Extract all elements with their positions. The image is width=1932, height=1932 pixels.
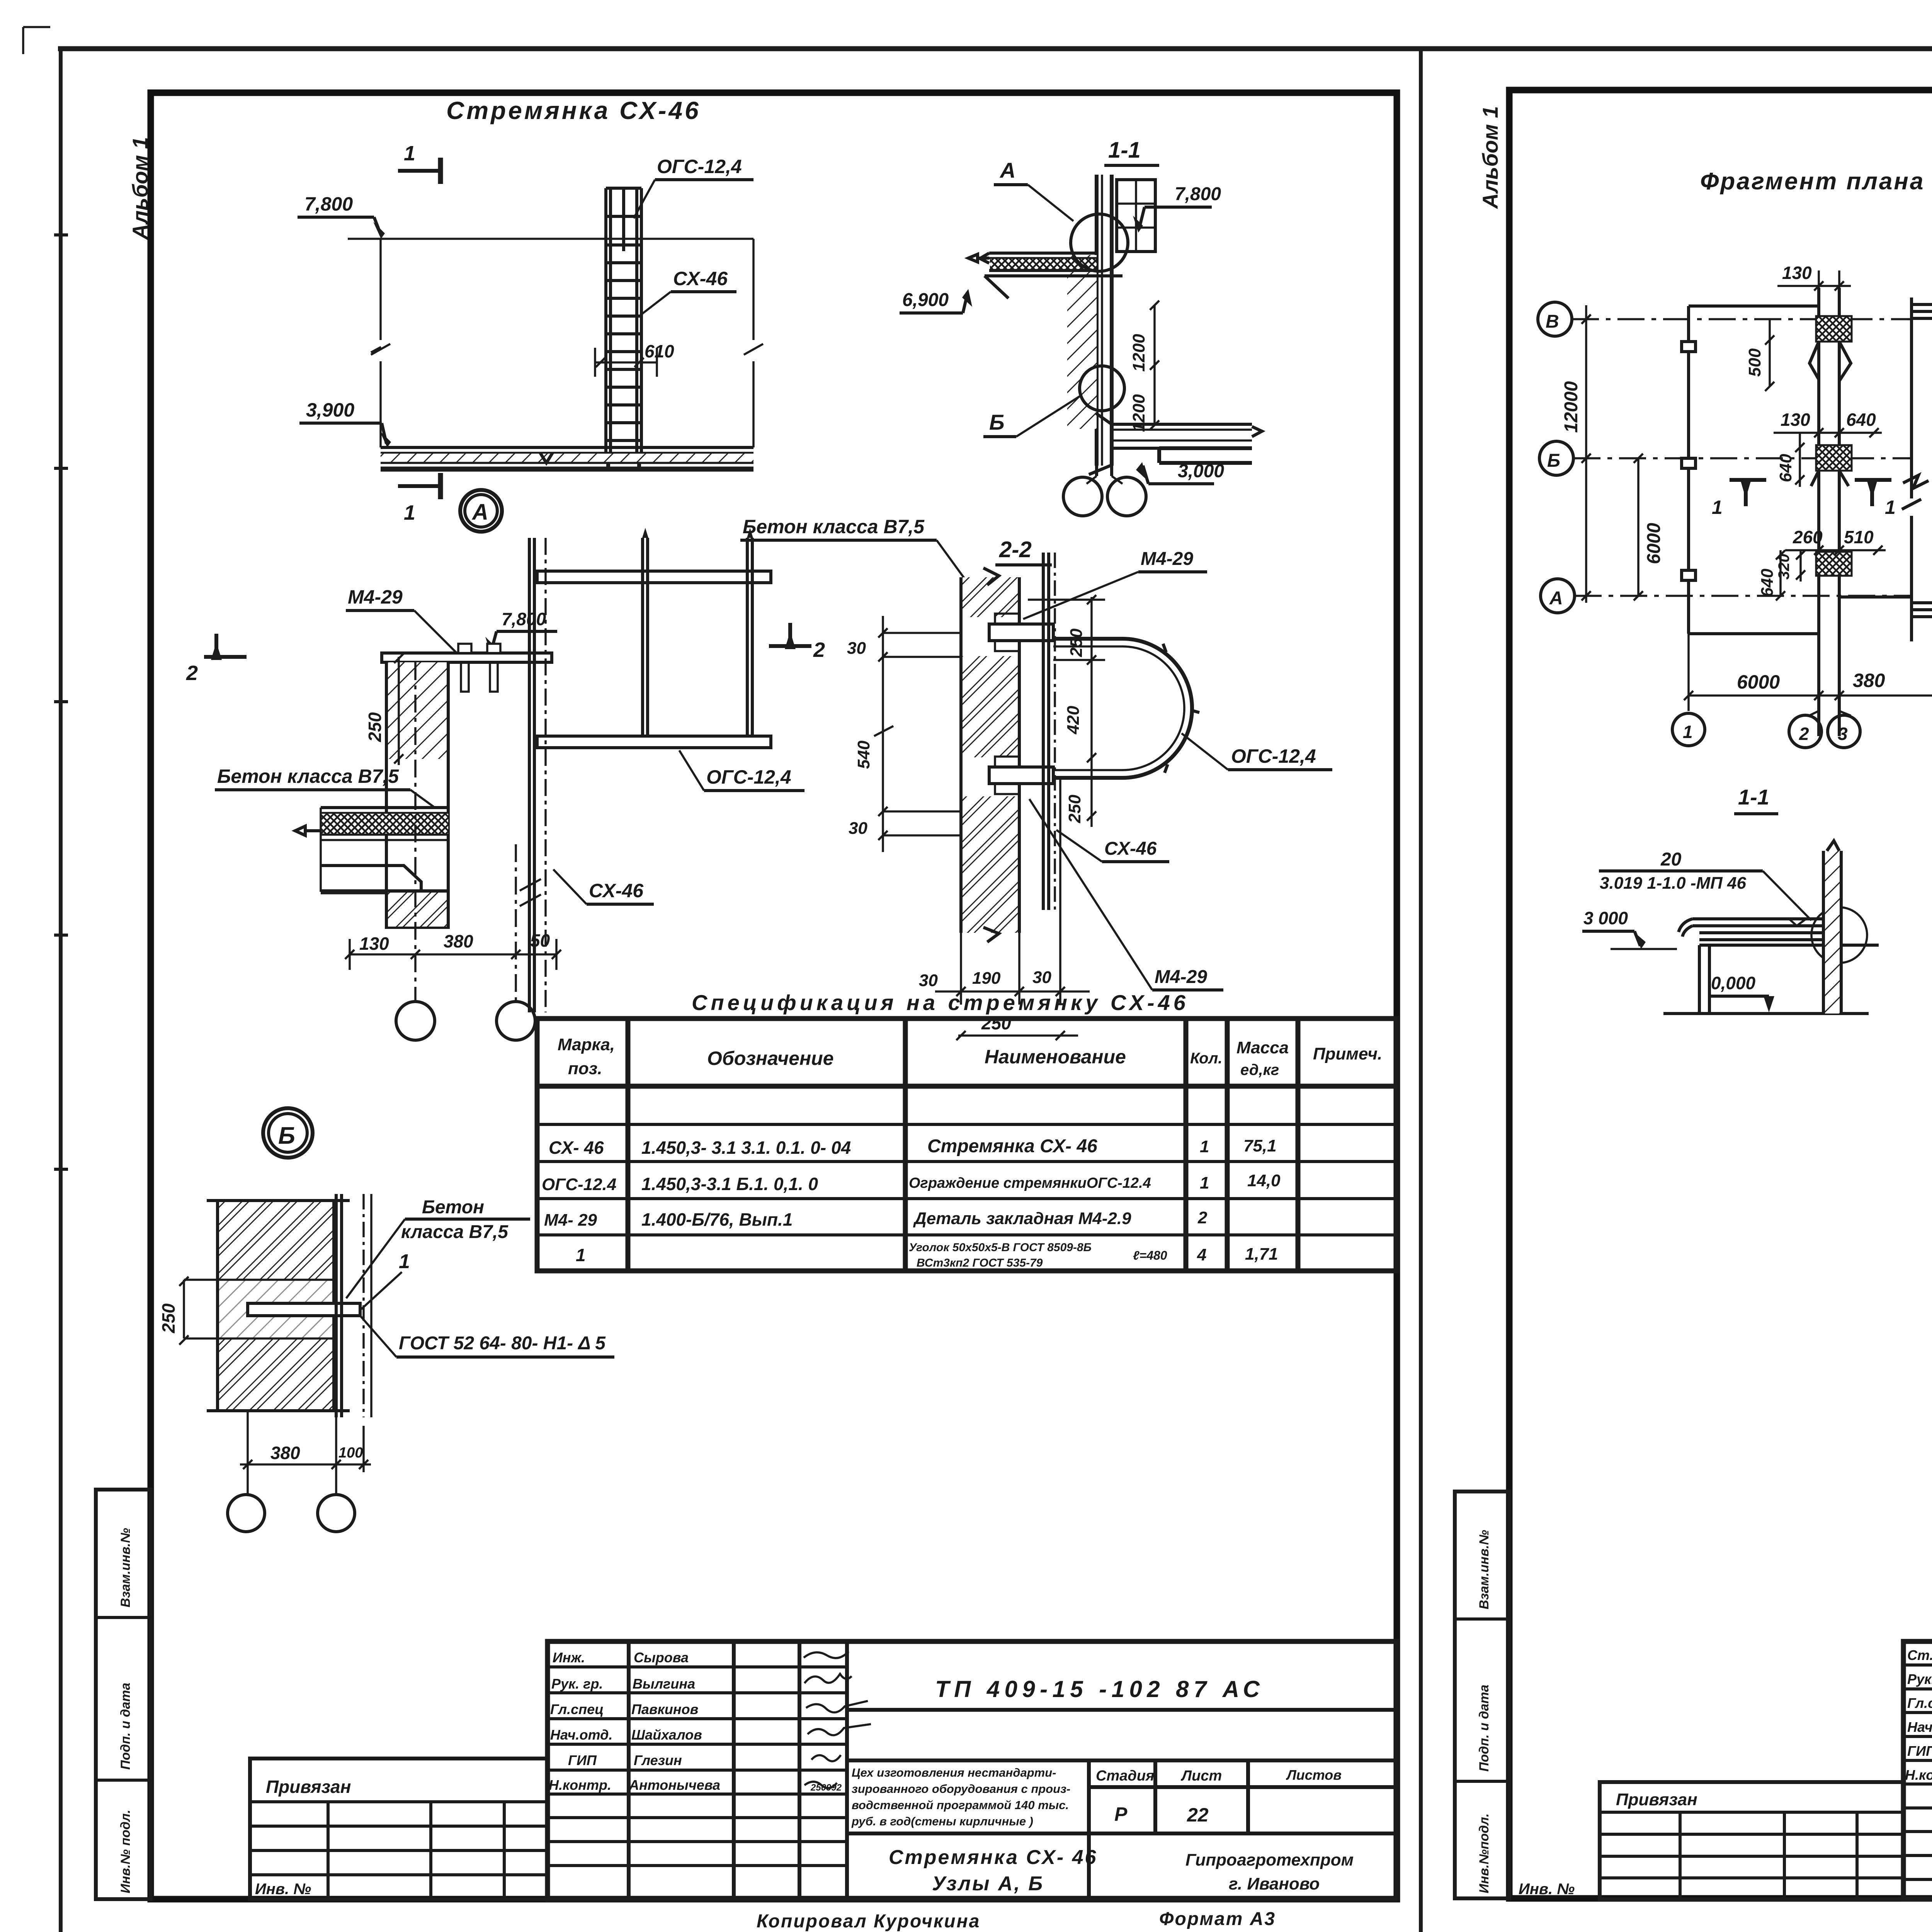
pilaster at Б (1816, 445, 1852, 471)
svg-text:Взам.инв.№: Взам.инв.№ (118, 1528, 133, 1607)
svg-text:ГИП: ГИП (568, 1752, 597, 1768)
node callout circle Б on wall (1080, 366, 1124, 411)
lower embed plate (995, 757, 1019, 767)
hatched wall (218, 1201, 334, 1411)
svg-text:250992: 250992 (810, 1782, 842, 1793)
svg-text:ОГС-12,4: ОГС-12,4 (706, 766, 791, 788)
registration tick marks on left outer border (54, 235, 68, 1169)
right wall (1902, 298, 1921, 641)
svg-text:СХ-46: СХ-46 (589, 880, 644, 901)
svg-text:Взам.инв.№: Взам.инв.№ (1477, 1530, 1492, 1609)
svg-text:6000: 6000 (1644, 523, 1664, 564)
svg-text:Ст.инж.: Ст.инж. (1907, 1647, 1932, 1663)
svg-text:Антонычева: Антонычева (629, 1777, 720, 1793)
svg-text:Ограждение стремянкиОГС-12.4: Ограждение стремянкиОГС-12.4 (909, 1175, 1151, 1191)
grid bubble В (1538, 302, 1572, 336)
handrail loop ОГС inner (1053, 646, 1184, 770)
svg-text:Спецификация на стремянку С: Спецификация на стремянку СХ-46 (692, 990, 1189, 1015)
svg-text:ОГС-12,4: ОГС-12,4 (657, 156, 742, 177)
grid box at top (1117, 180, 1155, 252)
svg-text:130: 130 (1782, 263, 1812, 283)
svg-text:2: 2 (1197, 1208, 1207, 1227)
svg-text:ОГС-12,4: ОГС-12,4 (1231, 745, 1316, 767)
svg-text:2: 2 (813, 638, 825, 662)
left dims 30 540 30 (874, 616, 893, 852)
svg-text:Нач.отЭ: Нач.отЭ (1907, 1719, 1932, 1735)
svg-text:Рук. гр.: Рук. гр. (551, 1676, 603, 1692)
ladder rails (604, 188, 607, 458)
wall hatch below slab (388, 893, 447, 927)
svg-text:Стремянка СХ- 46: Стремянка СХ- 46 (927, 1136, 1097, 1156)
svg-text:Альбом 1: Альбом 1 (1478, 106, 1502, 209)
SHEET 1 (left) inner frame (151, 93, 1397, 1899)
svg-text:Нач.отд.: Нач.отд. (550, 1727, 612, 1743)
svg-text:М4-29: М4-29 (348, 586, 403, 608)
center wall axis 2 (1819, 288, 1839, 736)
svg-text:Подп. и дата: Подп. и дата (118, 1683, 133, 1770)
svg-text:30: 30 (847, 639, 866, 658)
svg-text:Наименование: Наименование (985, 1046, 1126, 1068)
svg-text:Инв. №: Инв. № (255, 1881, 311, 1898)
svg-text:50: 50 (530, 930, 550, 951)
svg-text:30: 30 (919, 971, 938, 990)
outer left border line (59, 49, 63, 1932)
svg-text:СХ-46: СХ-46 (673, 268, 728, 289)
level line +7.800 (348, 238, 753, 240)
anchor bolts (461, 662, 469, 692)
svg-text:Б: Б (278, 1122, 295, 1149)
ОГС frame top bar (537, 571, 771, 583)
svg-text:Обозначение: Обозначение (707, 1048, 834, 1069)
svg-text:Инв. №: Инв. № (1519, 1881, 1575, 1898)
svg-text:А: А (1549, 588, 1563, 609)
ground line (1663, 1012, 1869, 1015)
svg-text:3.019 1-1.0 -МП 46: 3.019 1-1.0 -МП 46 (1600, 874, 1746, 893)
outer top border line (58, 46, 1932, 51)
svg-text:1-1: 1-1 (1738, 785, 1769, 809)
svg-text:540: 540 (854, 740, 873, 769)
svg-text:Примеч.: Примеч. (1313, 1044, 1382, 1063)
wall verticals (1097, 175, 1112, 466)
vertical dim 6000 (1634, 454, 1643, 600)
svg-text:1: 1 (576, 1245, 586, 1265)
ОГС frame verticals (643, 538, 752, 736)
svg-text:Деталь закладная М4-2.9: Деталь закладная М4-2.9 (913, 1209, 1131, 1228)
svg-text:1200: 1200 (1129, 334, 1148, 372)
svg-text:1.450,3- 3.1 3.1. 0.1. 0- 04: 1.450,3- 3.1 3.1. 0.1. 0- 04 (641, 1138, 851, 1158)
svg-text:Копировал Курочкина: Копировал Курочкина (757, 1911, 980, 1932)
grid bubble Б (1539, 441, 1573, 475)
column support (1699, 945, 1709, 1014)
svg-text:1.450,3-3.1 Б.1. 0,1. 0: 1.450,3-3.1 Б.1. 0,1. 0 (641, 1174, 818, 1194)
svg-text:Формат А3: Формат А3 (1159, 1909, 1276, 1929)
node callout circle А on wall (1071, 214, 1128, 271)
staff rows right (1905, 1647, 1932, 1783)
bottom dims 30 190 30 (935, 990, 1090, 993)
svg-text:500: 500 (1745, 348, 1764, 377)
bottom dims 130 380 50 (350, 953, 556, 956)
svg-text:420: 420 (1064, 706, 1083, 735)
svg-text:260: 260 (1793, 527, 1823, 547)
svg-text:250: 250 (1065, 794, 1084, 823)
grid bubble (node A detail) left (396, 1002, 435, 1040)
стадия лист листов grid (847, 1760, 1397, 1899)
ОГС frame bottom bar (537, 736, 771, 748)
svg-text:Глезин: Глезин (634, 1752, 682, 1768)
svg-text:Привязан: Привязан (266, 1777, 351, 1797)
svg-text:А: А (471, 500, 488, 525)
svg-text:510: 510 (1844, 527, 1874, 547)
svg-text:СХ- 46: СХ- 46 (549, 1138, 604, 1158)
floor slab layers left of wall (321, 806, 448, 809)
svg-text:1: 1 (1712, 497, 1723, 518)
svg-text:ГОСТ 52 64- 80- Н1- Δ 5: ГОСТ 52 64- 80- Н1- Δ 5 (399, 1333, 606, 1354)
floor slab right (1112, 424, 1252, 448)
svg-text:Рук. гр.: Рук. гр. (1907, 1671, 1932, 1687)
svg-text:20: 20 (1660, 849, 1682, 870)
svg-text:Инв.№подл.: Инв.№подл. (1477, 1813, 1492, 1893)
weld V mark on slab (540, 453, 553, 463)
svg-text:1: 1 (1683, 722, 1693, 742)
axis leaders (248, 1411, 336, 1495)
svg-text:Фрагмент плана: Фрагмент плана (1700, 168, 1925, 195)
signatures squiggles (804, 1651, 871, 1788)
svg-text:Цех изготовления нестандарти-: Цех изготовления нестандарти- (852, 1766, 1056, 1779)
svg-text:22: 22 (1187, 1804, 1209, 1826)
grid bubble 3 (1828, 715, 1860, 748)
svg-text:Гл.спец: Гл.спец (550, 1701, 604, 1717)
svg-text:640: 640 (1758, 568, 1777, 597)
svg-text:6000: 6000 (1737, 671, 1780, 693)
svg-text:7,800: 7,800 (1175, 184, 1221, 204)
concrete wall (hatched) (386, 662, 448, 927)
svg-text:3,900: 3,900 (306, 399, 354, 421)
svg-text:Лист: Лист (1180, 1768, 1222, 1784)
svg-text:380: 380 (444, 931, 473, 951)
roof slab left (989, 252, 1097, 255)
svg-text:Масса: Масса (1236, 1038, 1289, 1057)
svg-text:610: 610 (645, 341, 674, 361)
vertical dim 12000 (1582, 305, 1591, 603)
svg-text:Стремянка СХ- 46: Стремянка СХ- 46 (889, 1846, 1097, 1869)
svg-text:0,000: 0,000 (1711, 973, 1756, 993)
svg-text:7,800: 7,800 (502, 609, 546, 629)
svg-text:руб. в год(стены кирличные ): руб. в год(стены кирличные ) (851, 1815, 1033, 1828)
svg-text:1-1: 1-1 (1108, 138, 1141, 163)
svg-text:30: 30 (849, 819, 867, 838)
ladder rails in node A (529, 538, 534, 1012)
svg-text:Гл.спец.: Гл.спец. (1907, 1695, 1932, 1711)
building left wall (1689, 306, 1819, 634)
dim 250 vertical (179, 1277, 216, 1345)
bottom dims 380 100 (240, 1463, 371, 1466)
svg-text:250: 250 (1067, 628, 1086, 657)
svg-text:водственной программой 140 тыс: водственной программой 140 тыс. (852, 1798, 1069, 1812)
clips on loop (1163, 644, 1199, 773)
svg-text:г. Иваново: г. Иваново (1229, 1874, 1320, 1893)
wall return at А (1689, 597, 1912, 634)
svg-text:Стадия: Стадия (1096, 1768, 1154, 1784)
sheet2 left column strip (1455, 1492, 1509, 1898)
svg-text:В: В (1546, 311, 1559, 332)
svg-text:ОГС-12.4: ОГС-12.4 (542, 1175, 616, 1194)
floor slab under ladder (381, 446, 753, 449)
svg-text:1,71: 1,71 (1245, 1245, 1278, 1264)
svg-text:Бетон класса В7,5: Бетон класса В7,5 (217, 765, 399, 787)
grid bubbles under section 1-1 (1087, 476, 1122, 484)
svg-text:640: 640 (1846, 410, 1876, 430)
section arrows 1 (1730, 480, 1766, 506)
svg-text:250: 250 (365, 712, 385, 742)
svg-text:2-2: 2-2 (999, 537, 1032, 562)
svg-text:М4-29: М4-29 (1155, 967, 1207, 987)
ladder rungs (606, 263, 641, 440)
svg-text:1: 1 (1200, 1137, 1209, 1156)
canopy edge top right (1912, 304, 1932, 318)
project description (851, 1766, 1070, 1828)
svg-text:Шайхалов: Шайхалов (631, 1727, 702, 1743)
svg-text:Листов: Листов (1286, 1767, 1342, 1783)
svg-text:1: 1 (404, 142, 415, 165)
svg-text:Вылгина: Вылгина (633, 1676, 695, 1692)
right extension line with break (744, 239, 763, 447)
right dims 250 420 250 (1090, 597, 1093, 827)
svg-text:Бетон класса В7,5: Бетон класса В7,5 (743, 516, 925, 537)
svg-text:3 000: 3 000 (1583, 908, 1628, 928)
staff rows (549, 1650, 720, 1793)
svg-text:Б: Б (989, 410, 1005, 434)
svg-text:Инв.№ подл.: Инв.№ подл. (118, 1810, 133, 1893)
svg-text:Бетон: Бетон (422, 1197, 484, 1218)
svg-text:Уголок 50х50х5-В ГОСТ 8509-8Б: Уголок 50х50х5-В ГОСТ 8509-8Б (909, 1241, 1092, 1254)
svg-text:ед,кг: ед,кг (1240, 1061, 1279, 1078)
svg-text:М4-29: М4-29 (1141, 549, 1193, 569)
svg-text:СХ-46: СХ-46 (1104, 838, 1157, 859)
svg-text:640: 640 (1776, 454, 1795, 482)
upper embed plate (995, 614, 1019, 624)
white gaps where plates pass (959, 617, 1022, 656)
svg-text:250: 250 (158, 1303, 179, 1333)
svg-text:2: 2 (1799, 724, 1809, 744)
svg-text:130: 130 (1781, 410, 1810, 430)
wall hatch patch (1067, 255, 1097, 429)
lighter middle band (219, 1280, 332, 1338)
dim 640 rotated lower (1776, 550, 1785, 600)
svg-text:Кол.: Кол. (1190, 1050, 1223, 1067)
svg-text:6,900: 6,900 (902, 290, 949, 310)
svg-text:1: 1 (399, 1250, 410, 1273)
svg-text:ℓ=480: ℓ=480 (1133, 1248, 1167, 1262)
svg-text:Привязан: Привязан (1616, 1790, 1697, 1809)
svg-text:ГИП: ГИП (1907, 1743, 1932, 1759)
pilaster at В (1816, 316, 1852, 342)
svg-text:Подп. и дата: Подп. и дата (1477, 1685, 1492, 1772)
Привязан box right (1600, 1782, 1903, 1899)
svg-text:класса В7,5: класса В7,5 (401, 1222, 509, 1242)
top platform plate (382, 653, 552, 662)
canopy beam slab (1692, 919, 1879, 945)
wall strip hatched (961, 577, 1019, 933)
svg-text:Стремянка СХ-46: Стремянка СХ-46 (446, 97, 701, 124)
Привязан box (250, 1759, 548, 1899)
ladder feet (598, 457, 651, 471)
svg-text:3,000: 3,000 (1178, 461, 1224, 481)
svg-text:Сырова: Сырова (634, 1650, 689, 1665)
axis lines (1572, 319, 1913, 596)
svg-text:Узлы А, Б: Узлы А, Б (932, 1872, 1044, 1895)
svg-text:А: А (999, 158, 1015, 182)
left extension line with break (371, 239, 390, 447)
svg-text:Инж.: Инж. (553, 1650, 585, 1665)
dim 250 (vertical) (398, 657, 400, 765)
svg-text:Павкинов: Павкинов (631, 1701, 698, 1717)
svg-text:1200: 1200 (1129, 394, 1148, 432)
svg-text:380: 380 (1853, 670, 1885, 691)
sheet1 left column strip (96, 1490, 151, 1899)
svg-text:12000: 12000 (1561, 381, 1582, 433)
node callout circle А (460, 490, 502, 532)
svg-text:ВСт3кп2 ГОСТ 535-79: ВСт3кп2 ГОСТ 535-79 (917, 1257, 1043, 1269)
svg-text:поз.: поз. (568, 1059, 602, 1078)
svg-text:3: 3 (1838, 724, 1848, 744)
cage mid rail (622, 188, 625, 251)
detail circle at beam end (1811, 907, 1867, 963)
pilaster at А (1816, 552, 1852, 576)
door marks on left wall (1682, 342, 1696, 352)
svg-text:190: 190 (972, 969, 1001, 988)
ladder rails (СХ-46) (1043, 553, 1049, 910)
grid bubble (node A detail) right (497, 1002, 535, 1040)
grid bubble А (1541, 579, 1575, 613)
grid bubbles node Б (228, 1495, 265, 1532)
svg-text:2: 2 (186, 662, 198, 685)
grid bubble 1 (1672, 713, 1705, 746)
svg-text:4: 4 (1197, 1245, 1206, 1264)
dims 1200 1200 (1153, 305, 1156, 425)
svg-text:Альбом 1: Альбом 1 (128, 137, 152, 240)
svg-text:Н.контр.: Н.контр. (549, 1777, 611, 1793)
embedded plate (248, 1303, 360, 1316)
svg-text:380: 380 (270, 1443, 300, 1463)
svg-text:Б: Б (1547, 451, 1560, 471)
bottom dim 250 (958, 1034, 1078, 1037)
svg-text:зированного оборудования с про: зированного оборудования с произ- (852, 1782, 1070, 1796)
svg-text:М4- 29: М4- 29 (544, 1211, 597, 1230)
dim 500 rotated (1765, 319, 1774, 391)
svg-text:100: 100 (338, 1445, 363, 1461)
svg-text:Гипроагротехпром: Гипроагротехпром (1185, 1850, 1354, 1869)
svg-text:Марка,: Марка, (558, 1035, 615, 1054)
svg-text:1: 1 (1200, 1173, 1209, 1192)
grid bubble 2 (1809, 711, 1851, 716)
svg-text:Р: Р (1114, 1803, 1128, 1825)
svg-text:Н.контр.: Н.контр. (1905, 1767, 1932, 1783)
svg-text:1: 1 (404, 501, 415, 524)
wall column hatched (1823, 851, 1841, 1014)
cage horizontal bars (606, 187, 641, 190)
dim 640 rotated (1795, 433, 1804, 487)
rails below slab with break (1089, 465, 1112, 476)
svg-text:75,1: 75,1 (1243, 1136, 1277, 1155)
dim 320 rotated (1796, 550, 1805, 582)
svg-text:7,800: 7,800 (304, 193, 353, 215)
svg-text:130: 130 (359, 934, 389, 954)
svg-text:1.400-Б/76, Вып.1: 1.400-Б/76, Вып.1 (641, 1209, 793, 1230)
bottom dim line 6000 380 (1689, 694, 1932, 697)
rails (336, 1194, 342, 1417)
svg-text:30: 30 (1032, 968, 1051, 987)
svg-text:1: 1 (1885, 497, 1896, 518)
svg-text:14,0: 14,0 (1247, 1171, 1281, 1190)
table frame (537, 1019, 1397, 1271)
canopy edge bottom right (1912, 603, 1932, 617)
slab edge profile (321, 866, 421, 893)
corner registration mark top-left (23, 27, 50, 54)
handrail loop ОГС outer (1053, 639, 1192, 778)
axis leaders to bubbles (415, 662, 516, 1002)
middle seam line between sheets (1419, 49, 1423, 1932)
